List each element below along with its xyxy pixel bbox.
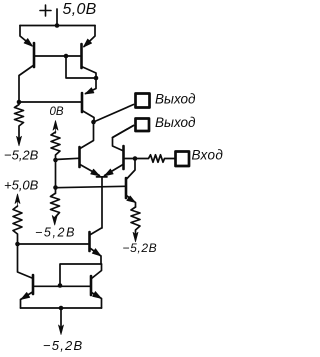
transistor T5 bar (122, 146, 125, 169)
svg-text:Выход: Выход (155, 92, 196, 107)
svg-text:Вход: Вход (192, 148, 224, 163)
R1 supply arrow (17, 136, 22, 146)
node top rail junction (55, 23, 60, 28)
wire T2 diode connection (66, 56, 96, 78)
transistor T9 bar (90, 276, 93, 295)
node divider tap 1 (53, 158, 58, 163)
wire T2 collector (82, 67, 97, 79)
transistor T8 bar (32, 275, 35, 294)
resistor R2 supply arrow (53, 121, 58, 134)
transistor T9 emitter arrow (93, 292, 102, 299)
wire divider link (55, 160, 57, 188)
wire tail vertical (101, 177, 103, 228)
wire top supply stub (56, 9, 58, 26)
wire T4 collector (80, 122, 94, 149)
transistor T6 emitter arrow (92, 249, 101, 256)
transistor T1 bar (33, 43, 36, 67)
transistor T3 emitter arrow (85, 88, 94, 94)
svg-text:+5,0В: +5,0В (4, 178, 39, 193)
wire T8 emitter (21, 292, 33, 308)
svg-text:−5,2В: −5,2В (43, 338, 83, 353)
wire T6 collector (91, 228, 102, 235)
transistor T5 emitter arrow (105, 169, 114, 176)
wire T2 emitter lead (84, 26, 95, 47)
wire T4 base (56, 158, 79, 159)
svg-text:0В: 0В (50, 106, 64, 118)
resistor R1 (15, 102, 24, 140)
terminal square output 1 (136, 94, 150, 108)
R5 supply arrow (133, 232, 138, 242)
wire T9 emitter (92, 293, 102, 309)
transistor T8 emitter arrow (21, 293, 30, 300)
wire to output square 1 (94, 105, 134, 123)
node collector T1 (17, 100, 22, 105)
node bottom rail junction (59, 306, 64, 311)
wire tail node bar (97, 176, 108, 178)
wire 0V base line (19, 101, 81, 103)
wire to output square 2 (113, 126, 134, 138)
transistor T7 emitter arrow (127, 196, 135, 202)
resistor R5 (131, 207, 140, 235)
node mirror base junction (58, 283, 63, 288)
resistor R4 supply arrow (15, 194, 20, 207)
node divider tap 2 (53, 185, 58, 190)
wire T4 emitter (80, 165, 100, 176)
wire T5 emitter (105, 165, 124, 176)
wire T1 collector (19, 65, 34, 102)
svg-text:−5,2В: −5,2В (35, 226, 76, 240)
wire T1 emitter lead (20, 26, 32, 46)
transistor T3 bar (81, 93, 84, 112)
svg-text:Выход: Выход (155, 115, 196, 130)
node T2 collector junction (94, 76, 99, 81)
transistor T4 bar (78, 147, 81, 167)
wire bottom rail (21, 307, 102, 309)
wire T6 base (18, 243, 89, 245)
wire bottom supply stub (60, 308, 62, 328)
transistor T2 emitter arrow (84, 39, 92, 47)
svg-text:5,0В: 5,0В (63, 1, 97, 18)
resistor R4 (13, 206, 22, 244)
resistor Rin (135, 155, 175, 162)
transistor T7 bar (125, 178, 128, 198)
transistor T6 bar (88, 232, 91, 251)
node input junction (133, 156, 138, 161)
terminal square input (176, 152, 190, 167)
wire T1-T2 base link (35, 55, 82, 57)
resistor R2 (51, 132, 60, 160)
resistor R3 (51, 188, 60, 221)
node T3 collector junction (91, 120, 96, 125)
node T1 T2 base junction (64, 54, 69, 59)
node +5.0V top label plus sign (40, 5, 51, 16)
top rail wire (20, 25, 95, 27)
transistor T1 emitter arrow (24, 39, 32, 47)
wire T7 base (56, 186, 126, 187)
svg-text:−5,2В: −5,2В (4, 148, 39, 163)
wire T9 collector (92, 264, 102, 279)
node R4 bottom junction (15, 242, 20, 247)
wire T5 collector (113, 126, 134, 151)
wire T6 emitter (91, 249, 102, 265)
wire T8 collector (18, 244, 33, 278)
wire T5 base to input node (125, 158, 135, 160)
R3 supply arrow (52, 216, 57, 226)
transistor T2 bar (80, 44, 83, 68)
wire T7 collector (127, 159, 135, 179)
transistor T4 emitter arrow (91, 169, 100, 176)
wire mirror diode link (60, 264, 102, 286)
wire T3 collector (82, 111, 94, 123)
terminal square output 2 (136, 119, 150, 132)
wire mirror base line (35, 285, 91, 287)
svg-text:−5,2В: −5,2В (123, 241, 158, 255)
wire T7 emitter (127, 196, 136, 208)
bottom supply arrow (59, 325, 64, 335)
wire T3 emitter lead (86, 78, 97, 94)
